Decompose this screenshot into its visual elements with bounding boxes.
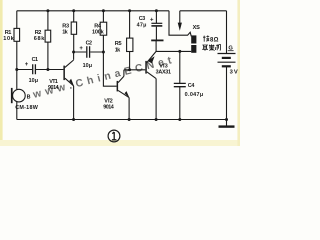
page background (0, 0, 240, 146)
svg-text:3AX31: 3AX31 (156, 70, 171, 76)
wire battery column bottom (226, 67, 228, 120)
node dots mid circuit (15, 50, 181, 71)
svg-text:XS: XS (193, 25, 200, 31)
wire R2 column (47, 11, 49, 70)
wire top rail right segment (180, 10, 227, 12)
svg-text:R5: R5 (115, 41, 122, 47)
svg-text:+: + (79, 46, 83, 52)
svg-text:R2: R2 (35, 30, 42, 36)
svg-text:C1: C1 (32, 57, 38, 63)
wire VT2 emitter vertical (128, 98, 130, 120)
microphone B CM-18W (11, 88, 39, 111)
svg-text:10μ: 10μ (29, 78, 38, 84)
wire C4 bottom to ground (179, 87, 181, 120)
watermark www.ChinaECNet (31, 53, 177, 101)
wire R3/VT1 collector node to C2 (74, 51, 104, 53)
transistor VT3 (PNP) (145, 51, 171, 78)
label 接8Ω (connect 8 ohm) (203, 35, 219, 43)
svg-text:47μ: 47μ (137, 22, 147, 28)
svg-text:9014: 9014 (48, 85, 59, 91)
transistor VT1 (48, 60, 74, 91)
svg-text:C4: C4 (188, 83, 195, 89)
svg-text:C3: C3 (139, 16, 145, 22)
capacitor C1 (25, 57, 38, 84)
wire R3 column (73, 11, 75, 52)
battery G 3V (218, 46, 238, 76)
svg-text:10μ: 10μ (83, 63, 92, 69)
capacitor C2 (79, 41, 92, 70)
resistor R4 (92, 22, 107, 35)
svg-text:100k: 100k (92, 29, 105, 35)
svg-text:3V: 3V (230, 69, 238, 75)
wire VT1 collector vertical (73, 52, 75, 60)
resistor R1 (3, 28, 19, 42)
svg-text:C2: C2 (86, 41, 92, 47)
wire jack sleeve down to C4 (179, 51, 181, 83)
capacitor C4 (174, 83, 203, 98)
wire VT3 emitter node to jack (156, 50, 191, 52)
wire C1 to VT1 base (17, 69, 64, 71)
svg-text:9014: 9014 (103, 105, 114, 111)
wire jack upper contact from left rail (169, 11, 191, 37)
wire VT2 collector to VT3 base (124, 70, 145, 76)
wire R5 column (129, 11, 131, 70)
svg-text:10k: 10k (3, 36, 14, 42)
ground stub below rail (226, 120, 228, 127)
svg-text:68k: 68k (34, 36, 45, 42)
figure number 1 in circle (108, 130, 120, 142)
wire C3 column (155, 11, 157, 40)
wire jack plug shaft (179, 11, 181, 23)
wire C3 junction bar to VT3 emitter corner (155, 41, 157, 51)
svg-text:0.047μ: 0.047μ (185, 92, 204, 98)
resistor R2 (34, 30, 51, 42)
label 耳塞机 (earphone) (202, 44, 220, 50)
svg-text:8Ω: 8Ω (210, 37, 219, 43)
wire battery column top (226, 11, 228, 53)
wire VT3 collector vertical (155, 79, 157, 120)
ground symbol bottom right (219, 125, 235, 127)
wire bottom ground rail (17, 119, 227, 121)
resistor R3 (62, 22, 76, 35)
svg-text:1k: 1k (62, 29, 68, 35)
wire R4 column (102, 11, 104, 52)
svg-text:CM-18W: CM-18W (15, 105, 39, 111)
node dots top rail (46, 9, 157, 12)
transistor VT2 (103, 76, 129, 110)
wire left column (R1/mic branch) (16, 11, 18, 120)
jack XS with plug arrow (178, 23, 200, 53)
resistor R5 (115, 38, 133, 53)
svg-text:+: + (25, 62, 29, 68)
wire VT1 emitter vertical (73, 86, 75, 120)
capacitor C3 (137, 16, 164, 41)
wire VT2 base L (103, 52, 116, 86)
node dots bottom rail (72, 118, 228, 121)
svg-text:1k: 1k (115, 47, 121, 53)
svg-text:R1: R1 (5, 30, 12, 36)
svg-text:+: + (150, 18, 154, 24)
svg-text:B: B (27, 94, 31, 100)
wire top rail left segment (17, 10, 169, 12)
svg-text:VT3: VT3 (159, 63, 168, 69)
